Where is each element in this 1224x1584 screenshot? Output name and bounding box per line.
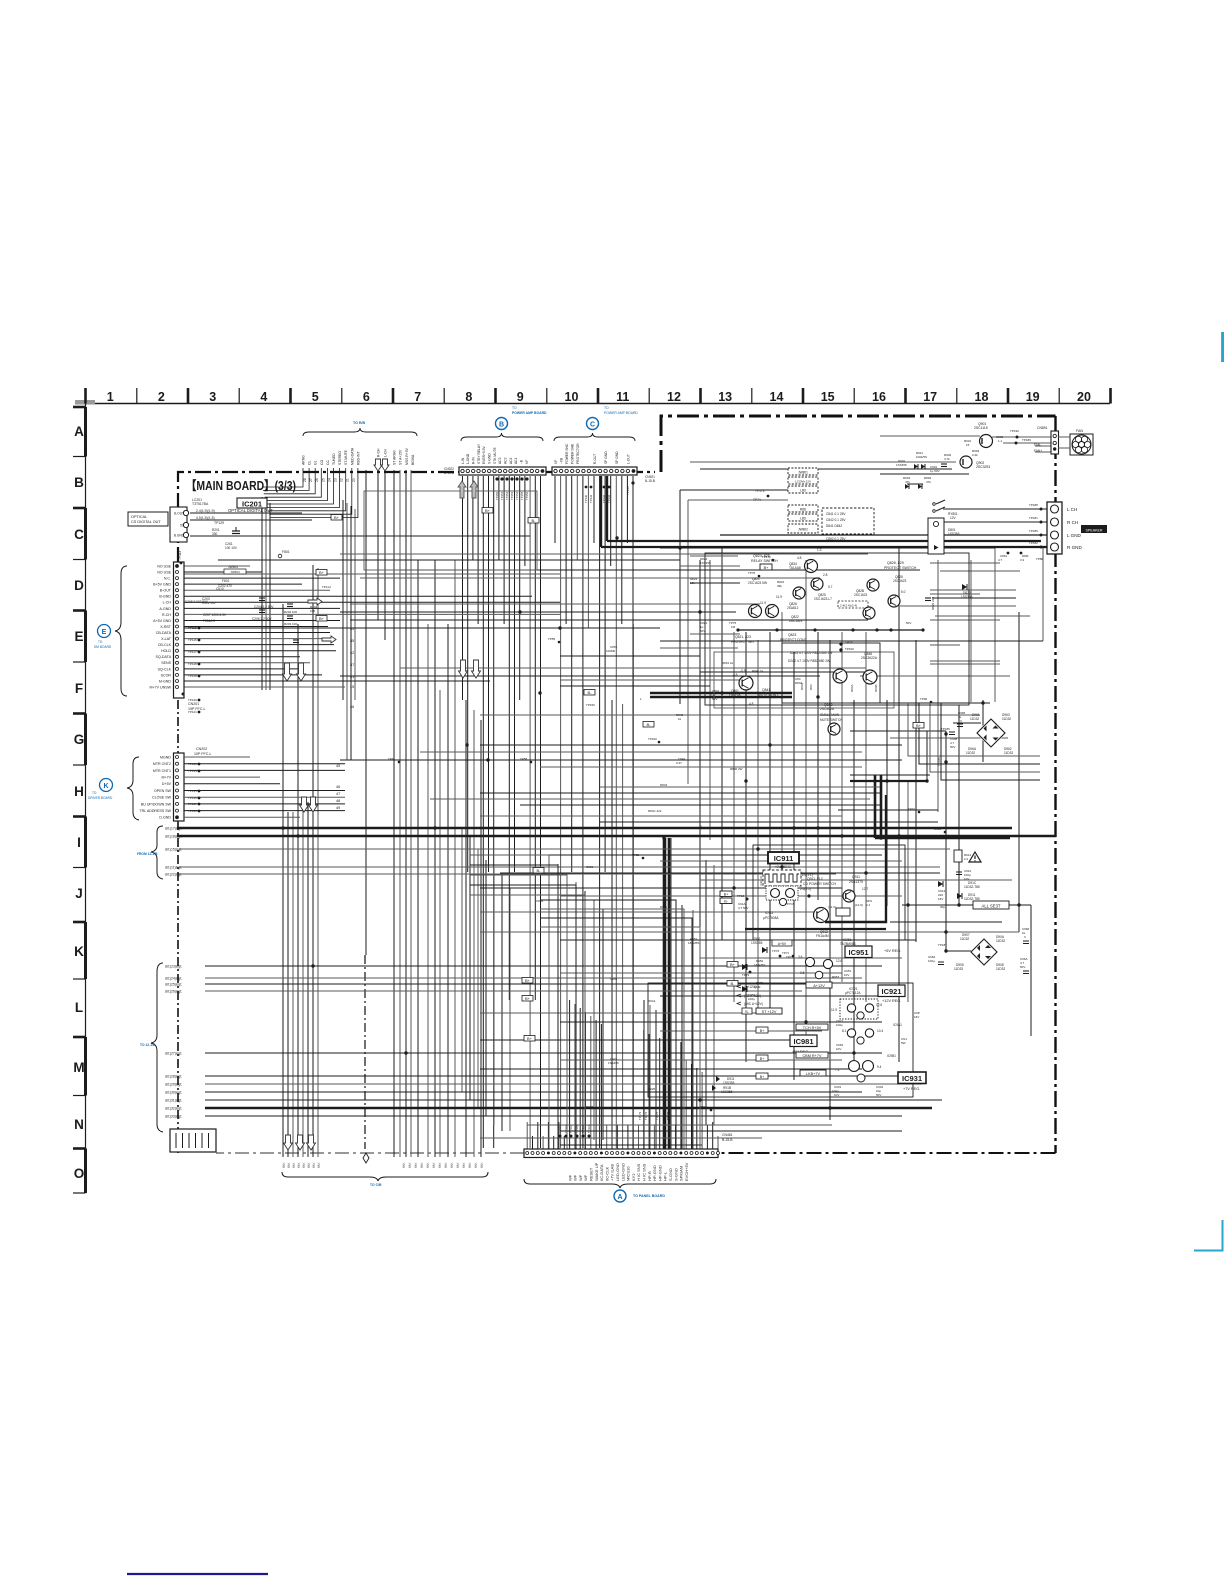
svg-text:AC3: AC3 (504, 457, 508, 464)
svg-text:MGND: MGND (160, 755, 171, 759)
svg-text:11D32: 11D32 (996, 967, 1005, 971)
svg-text:TRL ADDRESS SW: TRL ADDRESS SW (139, 809, 171, 813)
B+/B- flag pair near IC911 (720, 891, 749, 910)
svg-text:OPEN SW: OPEN SW (154, 789, 172, 793)
svg-text:6: 6 (363, 390, 370, 404)
svg-text:KY2: KY2 (631, 1173, 636, 1181)
svg-text:15: 15 (821, 390, 835, 404)
svg-text:16V: 16V (914, 1015, 919, 1019)
CN202 TP dots (188, 762, 200, 813)
Q821/Q822 protect set pair (748, 577, 782, 605)
heavy return wires IC911 (745, 795, 886, 929)
svg-text:E: E (102, 629, 107, 636)
svg-text:R957: R957 (832, 975, 840, 979)
svg-text:【MAIN BOARD】(3/3): 【MAIN BOARD】(3/3) (186, 478, 296, 493)
svg-text:2.4(1.9)(1.9): 2.4(1.9)(1.9) (196, 509, 215, 513)
svg-text:(MIC A+12V): (MIC A+12V) (744, 1002, 763, 1006)
CN202 pin stub wires (184, 757, 345, 817)
svg-text:B-: B- (647, 722, 652, 727)
svg-text:CC: CC (326, 460, 330, 465)
signal arrows right of CN201 (308, 598, 336, 643)
wiring: vertical bus lines (262, 470, 1043, 1157)
svg-text:13: 13 (718, 390, 732, 404)
svg-text:L8D: L8D (800, 489, 807, 493)
svg-text:C862 0.1 25V: C862 0.1 25V (826, 537, 846, 541)
svg-text:B-15-B: B-15-B (444, 471, 454, 475)
svg-text:TP88: TP88 (1036, 557, 1044, 561)
CN202 pin numbers (336, 764, 340, 810)
svg-text:TP162: TP162 (558, 1124, 562, 1133)
svg-text:C: C (74, 527, 84, 542)
svg-text:TP71: TP71 (782, 951, 790, 955)
IC981 +9V REG (790, 1029, 907, 1058)
svg-text:&lt;(23)&gt;: &lt;(23)&gt; (165, 965, 182, 969)
resistors R904/R894 47k with diodes (903, 476, 932, 489)
svg-text:LED-GND: LED-GND (620, 1163, 625, 1181)
svg-text:TP190: TP190 (1010, 429, 1019, 433)
svg-text:TP150: TP150 (495, 491, 499, 500)
svg-text:MED-DATA: MED-DATA (350, 447, 354, 465)
svg-text:4.8: 4.8 (797, 556, 802, 560)
resistor R916 (836, 908, 850, 916)
svg-text:2SC3622A: 2SC3622A (861, 656, 878, 660)
svg-text:1M: 1M (731, 625, 736, 629)
small parts row near CN201 (185, 565, 331, 626)
svg-text:2.8: 2.8 (823, 573, 828, 577)
transistor Q826 (793, 587, 805, 599)
svg-text:PROTECTOR: PROTECTOR (576, 443, 580, 464)
svg-text:2SC1623-L7: 2SC1623-L7 (814, 597, 832, 601)
svg-text:B+: B+ (760, 1057, 765, 1061)
svg-text:TP163: TP163 (564, 1124, 568, 1133)
svg-text:11D32: 11D32 (970, 717, 979, 721)
svg-text:TP115: TP115 (188, 626, 197, 630)
svg-text:IC9B1: IC9B1 (887, 1054, 896, 1058)
svg-text:TP140: TP140 (584, 494, 588, 503)
svg-text:L-CH: L-CH (163, 601, 172, 605)
voltage notes IC911 (785, 873, 872, 909)
svg-text:TP187: TP187 (938, 943, 947, 947)
svg-text:26: 26 (315, 478, 319, 482)
svg-text:NO USE: NO USE (157, 564, 171, 568)
svg-text:&lt;(: &lt;( (456, 1163, 460, 1168)
protect switch label (884, 561, 917, 583)
svg-text:TP142: TP142 (602, 494, 606, 503)
wiring: horizontal bus lines (177, 436, 1056, 1145)
svg-text:X-LAT: X-LAT (161, 637, 172, 641)
svg-text:&lt;(: &lt;( (292, 1163, 296, 1168)
svg-text:TO: TO (512, 406, 517, 410)
IC911 package pictogram (square wave) (759, 870, 801, 886)
svg-text:DRIVER BOARD: DRIVER BOARD (88, 796, 113, 800)
svg-text:IC911: IC911 (765, 911, 773, 915)
transistor Q843 (863, 670, 877, 684)
svg-text:K: K (74, 944, 84, 959)
svg-text:0.7: 0.7 (828, 585, 833, 589)
svg-text:B+: B+ (730, 962, 736, 967)
transistor Q829 (888, 595, 900, 607)
svg-text:1: 1 (107, 390, 114, 404)
svg-text:A+5V: A+5V (778, 942, 787, 946)
transistor Q825 (811, 578, 823, 590)
svg-text:ST +12V: ST +12V (762, 1010, 777, 1014)
svg-text:11D32: 11D32 (960, 937, 969, 941)
svg-text:D2A2 4.7 100V R852 680 2W: D2A2 4.7 100V R852 680 2W (788, 659, 830, 663)
svg-text:L-OUT: L-OUT (626, 454, 630, 464)
IC201 label (192, 498, 273, 513)
svg-text:&lt;(17)&gt;: &lt;(17)&gt; (165, 827, 182, 831)
svg-text:11: 11 (616, 390, 629, 404)
svg-text:C206 2.2 50V: C206 2.2 50V (252, 617, 272, 621)
svg-text:L CH: L CH (1067, 507, 1077, 512)
svg-text:8: 8 (700, 825, 702, 829)
svg-text:10V: 10V (834, 1093, 839, 1097)
svg-text:TP146: TP146 (626, 486, 630, 495)
svg-text:M: M (73, 1060, 84, 1075)
svg-text:45: 45 (336, 764, 340, 768)
svg-text:SMALL MAIN: SMALL MAIN (820, 713, 840, 717)
svg-text:TP156: TP156 (525, 491, 529, 500)
svg-text:A-GND: A-GND (159, 607, 171, 611)
D2A3/D2A2 rows (788, 651, 832, 663)
svg-text:R GND: R GND (1067, 545, 1082, 550)
svg-text:B+: B+ (525, 996, 531, 1001)
svg-text:R928: R928 (586, 1105, 594, 1109)
svg-text:&lt;(: &lt;( (480, 1163, 484, 1168)
svg-text:49: 49 (336, 806, 340, 810)
svg-text:POWER AMP BOARD: POWER AMP BOARD (604, 411, 638, 415)
svg-text:TP136: TP136 (188, 796, 197, 800)
svg-text:TP173: TP173 (755, 489, 765, 493)
svg-text:&lt;(: &lt;( (414, 1163, 418, 1168)
svg-text:PROTECT SET: PROTECT SET (731, 640, 755, 644)
svg-text:B+: B+ (319, 570, 325, 575)
svg-text:F801: F801 (282, 550, 290, 554)
svg-text:BGWA: BGWA (411, 454, 415, 465)
svg-text:2SC1623: 2SC1623 (789, 619, 803, 623)
svg-text:JW604: JW604 (228, 565, 238, 569)
ALL SE3T flag (973, 901, 1009, 909)
svg-text:TP116: TP116 (188, 638, 197, 642)
svg-text:&lt;(30)&gt;: &lt;(30)&gt; (165, 1091, 182, 1095)
svg-text:TP129: TP129 (214, 521, 224, 525)
svg-text:TP166: TP166 (581, 1124, 585, 1133)
svg-text:&lt;(27)&gt;: &lt;(27)&gt; (165, 1052, 182, 1056)
R829 cap (906, 597, 935, 625)
svg-text:27: 27 (309, 478, 313, 482)
svg-text:POWER SHC: POWER SHC (565, 443, 569, 464)
svg-text:M-GND: M-GND (159, 679, 172, 683)
Q825 labels (777, 573, 833, 601)
svg-text:8.1: 8.1 (842, 1029, 847, 1033)
svg-text:D841 D842: D841 D842 (826, 524, 842, 528)
svg-text:TP154: TP154 (515, 491, 519, 500)
svg-text:SQ-CLK: SQ-CLK (158, 667, 172, 671)
svg-text:B: B (499, 422, 504, 429)
svg-text:11D32: 11D32 (1002, 717, 1011, 721)
svg-text:1SS355: 1SS355 (723, 1081, 735, 1085)
svg-text:R8D: R8D (800, 508, 807, 512)
svg-text:4.8: 4.8 (749, 702, 754, 706)
mute RC parts (795, 677, 878, 692)
svg-text:CBM R+7V: CBM R+7V (802, 1054, 822, 1058)
svg-text:(12.9): (12.9) (855, 903, 863, 907)
svg-text:18: 18 (975, 390, 989, 404)
svg-text:ST A+15V: ST A+15V (399, 449, 403, 465)
svg-text:&lt;(: &lt;( (426, 1163, 430, 1168)
svg-text:19: 19 (1026, 390, 1040, 404)
svg-text:C204 2.2 50V: C204 2.2 50V (254, 605, 274, 609)
mute cont (729, 669, 779, 706)
brace E to DM board (94, 566, 127, 696)
CN481 pin net labels (567, 1162, 689, 1181)
svg-text:Q826, 829: Q826, 829 (887, 561, 904, 565)
brace A to panel board (524, 1179, 716, 1202)
svg-text:R881: R881 (586, 865, 594, 869)
svg-text:CD POWER SWITCH: CD POWER SWITCH (803, 882, 837, 886)
svg-text:11D32-T85: 11D32-T85 (964, 897, 980, 901)
svg-text:2: 2 (158, 390, 165, 404)
svg-text:WF: WF (583, 1174, 588, 1181)
svg-text:B+: B+ (485, 508, 491, 513)
svg-text:NO USE: NO USE (157, 570, 171, 574)
svg-text:4.5(1.5)(1.5): 4.5(1.5)(1.5) (196, 516, 215, 520)
svg-text:IC911: IC911 (774, 854, 794, 863)
svg-text:46: 46 (350, 705, 354, 709)
cyan edge mark top right (1221, 332, 1224, 362)
svg-text:TP141: TP141 (589, 494, 593, 503)
svg-text:TO: TO (92, 791, 97, 795)
IC921 +12V REG (831, 985, 920, 1027)
svg-text:2SB1375: 2SB1375 (849, 880, 863, 884)
svg-text:B: B (74, 475, 84, 490)
svg-text:C207 1000 6.3V: C207 1000 6.3V (203, 613, 227, 617)
misc reference labels (536, 557, 743, 1109)
svg-text:VF: VF (525, 460, 529, 464)
svg-text:HP-R: HP-R (647, 1171, 652, 1181)
svg-text:R-CH: R-CH (162, 613, 171, 617)
svg-text:(12.3): (12.3) (828, 905, 836, 909)
svg-text:MUTE CONT.: MUTE CONT. (758, 693, 779, 697)
svg-text:1SS355: 1SS355 (961, 595, 973, 599)
svg-text:TP52: TP52 (632, 853, 640, 857)
svg-text:TP137: TP137 (188, 802, 197, 806)
optical output jack J201 (128, 507, 240, 550)
svg-text:&lt;(: &lt;( (302, 1163, 306, 1168)
svg-text:A: A (617, 1194, 622, 1201)
svg-text:AC4: AC4 (514, 457, 518, 464)
relay RY801 (928, 500, 960, 554)
transistor Q82C (863, 607, 875, 619)
svg-text:&lt;(15)&gt;: &lt;(15)&gt; (165, 848, 182, 852)
svg-text:B.OUT: B.OUT (174, 511, 184, 515)
svg-text:TP120: TP120 (188, 698, 197, 702)
svg-text:1SS355: 1SS355 (700, 561, 711, 565)
LKB+7V flag (756, 1070, 826, 1079)
svg-text:&lt;(24)&gt;: &lt;(24)&gt; (165, 977, 182, 981)
svg-text:20: 20 (1077, 390, 1091, 404)
svg-text:EVCH+5V: EVCH+5V (684, 1162, 689, 1181)
svg-text:L-IN: L-IN (461, 457, 465, 464)
svg-text:SP GND: SP GND (604, 451, 608, 464)
svg-text:FAN+: FAN+ (1034, 449, 1042, 453)
svg-text:41: 41 (350, 675, 354, 679)
svg-text:R-CH: R-CH (377, 448, 381, 457)
svg-text:F601: F601 (222, 579, 229, 583)
svg-text:21: 21 (346, 478, 350, 482)
svg-text:16V: 16V (938, 897, 943, 901)
svg-text:&lt;(: &lt;( (282, 1163, 286, 1168)
block outline: digital out routing (364, 491, 537, 570)
svg-text:&lt;(: &lt;( (307, 1163, 311, 1168)
svg-text:&lt;(25)&gt;: &lt;(25)&gt; (165, 983, 182, 987)
svg-text:SQ-DATA: SQ-DATA (156, 655, 172, 659)
svg-text:CB-DATA: CB-DATA (156, 631, 172, 635)
svg-text:TP73: TP73 (742, 973, 750, 977)
svg-text:L: L (75, 1000, 83, 1015)
capacitor C901 (930, 464, 947, 473)
svg-text:TP61: TP61 (388, 757, 396, 761)
svg-text:5W: 5W (901, 1041, 906, 1045)
svg-text:10V: 10V (836, 1047, 841, 1051)
svg-text:15: 15 (966, 443, 970, 447)
arrow terminals (down) on R-CH/L-CH (374, 459, 389, 471)
svg-text:TP155: TP155 (520, 491, 524, 500)
SPEAKER tag (1081, 525, 1107, 533)
svg-text:R202 100: R202 100 (284, 610, 297, 614)
svg-text:TP138: TP138 (188, 809, 197, 813)
svg-text:TP117: TP117 (188, 650, 197, 654)
cyan corner mark bottom right (1194, 1220, 1223, 1251)
svg-text:G1: G1 (314, 460, 318, 465)
bridge rectifier D905-D908 11D32 (954, 933, 1005, 971)
svg-text:B+: B+ (527, 1036, 533, 1041)
svg-text:ST ARNG: ST ARNG (393, 450, 397, 465)
svg-text:46: 46 (336, 785, 340, 789)
svg-text:TP165: TP165 (575, 1124, 579, 1133)
diode D951 1SS355 (751, 937, 794, 959)
svg-text:50V: 50V (712, 697, 717, 701)
svg-text:Q911: Q911 (852, 875, 860, 879)
svg-text:R203 100: R203 100 (284, 622, 297, 626)
svg-text:50V: 50V (950, 745, 955, 749)
connector CN922 (to power amp board, B) (459, 467, 546, 475)
fan motor (1058, 429, 1093, 455)
svg-text:1SS355: 1SS355 (751, 941, 763, 945)
svg-text:CO: CO (320, 460, 324, 465)
TP dots below CN922 (495, 477, 529, 500)
svg-text:S-GND: S-GND (673, 1168, 678, 1181)
svg-text:A+5V GND: A+5V GND (153, 619, 171, 623)
svg-text:R-OUT: R-OUT (593, 454, 597, 464)
svg-text:22: 22 (340, 478, 344, 482)
D911b/R91B parts (712, 1076, 735, 1094)
CBM R+7V flag (756, 1052, 828, 1061)
svg-text:2.1: 2.1 (866, 903, 871, 907)
svg-text:TP121: TP121 (188, 710, 197, 714)
svg-text:&lt;(: &lt;( (462, 1163, 466, 1168)
svg-text:2SC1115: 2SC1115 (974, 426, 988, 430)
relay jumper JW802 + snubbers (788, 505, 874, 541)
svg-text:10: 10 (565, 390, 579, 404)
svg-text:IC981: IC981 (793, 1037, 813, 1046)
svg-text:C841 0.1 25V: C841 0.1 25V (826, 512, 846, 516)
relay switch label (751, 548, 822, 570)
svg-text:&lt;(32)&gt;: &lt;(32)&gt; (165, 1107, 182, 1111)
svg-text:TP188: TP188 (1029, 503, 1038, 507)
wire junctions (281, 536, 1020, 1109)
svg-text:B-: B- (588, 690, 593, 695)
TP190 / TP189 (996, 429, 1031, 445)
svg-text:2SA812: 2SA812 (787, 606, 799, 610)
transistor Q911 (843, 890, 855, 902)
svg-text:F604A 3: F604A 3 (203, 619, 215, 623)
svg-text:12.7: 12.7 (862, 887, 868, 891)
svg-text:B.GND: B.GND (174, 533, 185, 537)
svg-text:TP96: TP96 (920, 697, 928, 701)
bottom-left edge connector (170, 1129, 216, 1152)
svg-text:WAKE UP: WAKE UP (594, 1162, 599, 1181)
svg-text:RESET: RESET (589, 1167, 594, 1181)
svg-text:100k/5S: 100k/5S (916, 455, 927, 459)
svg-text:2SC1623: 2SC1623 (893, 579, 907, 583)
svg-text:TUNED: TUNED (332, 453, 336, 465)
svg-text:2.6(1.1): 2.6(1.1) (800, 887, 811, 891)
C861/D861 bottom labels (998, 552, 1044, 562)
svg-text:CN202: CN202 (196, 747, 207, 751)
svg-text:1SS355: 1SS355 (896, 463, 907, 467)
svg-text:2.4(2.4)(2.4): 2.4(2.4)(2.4) (840, 604, 857, 608)
svg-text:μPC7812A: μPC7812A (845, 991, 861, 995)
svg-text:HP-GND: HP-GND (657, 1165, 662, 1181)
svg-text:CN891: CN891 (1037, 426, 1048, 430)
svg-text:42: 42 (350, 651, 354, 655)
wire staircase from bus labels (262, 468, 358, 518)
svg-text:+7V ILAB: +7V ILAB (610, 1164, 615, 1181)
svg-text:~VB: ~VB (559, 457, 563, 464)
diode D822 1SS355 (961, 584, 973, 599)
svg-text:1.1: 1.1 (998, 439, 1003, 443)
svg-text:TP189: TP189 (1022, 438, 1031, 442)
block outline: regulator section (648, 983, 913, 1097)
svg-text:CLOSE SW: CLOSE SW (152, 796, 172, 800)
svg-text:5: 5 (312, 390, 319, 404)
svg-text:R-IN: R-IN (472, 457, 476, 464)
svg-text:&lt;(: &lt;( (317, 1163, 321, 1168)
diode D911 11D32-T85 (957, 893, 980, 901)
svg-text:7.2: 7.2 (835, 1068, 840, 1072)
svg-text:TCH R+5V: TCH R+5V (803, 1026, 822, 1030)
svg-text:I: I (77, 835, 81, 850)
svg-text:BU UP/DOWN SW: BU UP/DOWN SW (141, 802, 172, 806)
svg-text:R912: R912 (934, 827, 942, 831)
svg-text:ALL SE3T: ALL SE3T (982, 904, 1001, 909)
svg-text:SCOR: SCOR (161, 673, 172, 677)
svg-text:47k: 47k (926, 480, 931, 484)
svg-text:CB-CLK: CB-CLK (158, 643, 172, 647)
transistor Q912 (814, 908, 829, 923)
svg-text:B-: B- (731, 981, 736, 986)
svg-text:3.6: 3.6 (798, 955, 803, 959)
C913 cap + 30µ (938, 889, 946, 909)
svg-text:&lt;(33)&gt;: &lt;(33)&gt; (165, 1115, 182, 1119)
svg-text:JW604: JW604 (230, 570, 240, 574)
svg-text:2SC3293: 2SC3293 (976, 465, 990, 469)
svg-text:S-GND: S-GND (488, 453, 492, 464)
svg-text:50V: 50V (1020, 965, 1025, 969)
R952 180k/R953 (742, 959, 765, 1001)
svg-text:37: 37 (350, 663, 354, 667)
